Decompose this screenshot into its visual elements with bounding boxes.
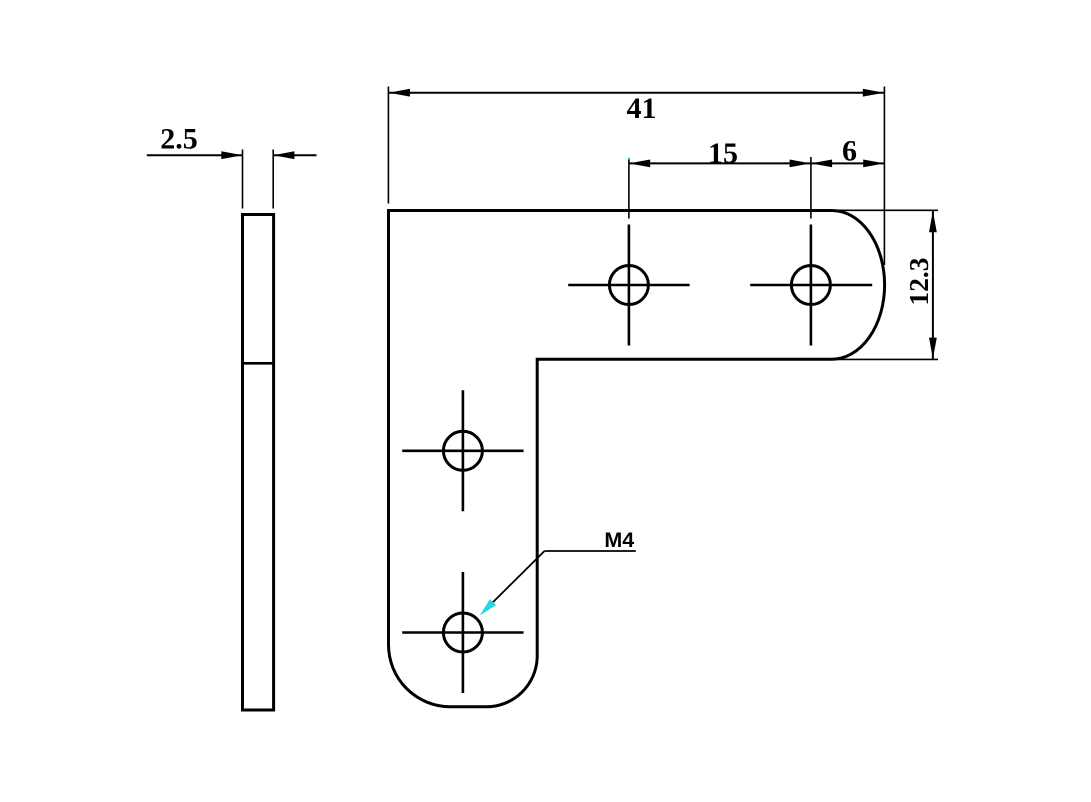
hole A crosshair [750,225,872,346]
dimension 12.3 line with arrows [929,211,937,359]
dimension 41 extension line left [387,87,389,204]
svg-text:2.5: 2.5 [160,123,198,156]
dimension 2.5 text [160,123,198,156]
hole C crosshair [402,390,523,511]
svg-text:15: 15 [708,137,738,170]
dimension 2.5 line with outside arrows [147,151,317,159]
side view plate outline [243,215,274,711]
dimension 41 line with arrows [389,89,884,97]
svg-text:6: 6 [842,135,857,168]
hole B crosshair [568,225,689,346]
M4 leader cyan arrowhead [480,599,496,615]
hole B circle (top left) [609,266,648,305]
dimension 12.3 text (rotated) [903,257,934,305]
dimension 15 line with arrows [629,160,811,168]
M4 label text [604,528,634,552]
dimension 15 text [708,137,738,170]
dimension 2.5 extension line right [272,150,274,209]
dimension 2.5 extension line left [242,150,244,209]
hole D crosshair [402,572,523,693]
dimension 41 text [627,92,657,125]
dimension 6 text [842,135,857,168]
dimension 12.3 extension line bottom [826,358,938,360]
M4 leader line [493,551,636,603]
L-bracket front view outline [389,211,885,707]
hole A circle (top right) [791,266,830,305]
svg-text:12.3: 12.3 [903,257,934,305]
dimension 6 line with arrows [811,160,885,168]
hole C circle (middle of vertical arm) [443,431,482,470]
svg-text:41: 41 [627,92,657,125]
svg-text:M4: M4 [604,528,634,552]
hole D circle (bottom) [443,613,482,652]
side view step edge line [243,362,274,365]
dimension 41/6 extension line right [883,87,885,266]
dimension 15 extension line (hole B centerline, cyan tick at top) [628,158,630,219]
dimension 12.3 extension line top [826,209,938,211]
dimension 15/6 extension line (hole A centerline) [810,157,812,219]
